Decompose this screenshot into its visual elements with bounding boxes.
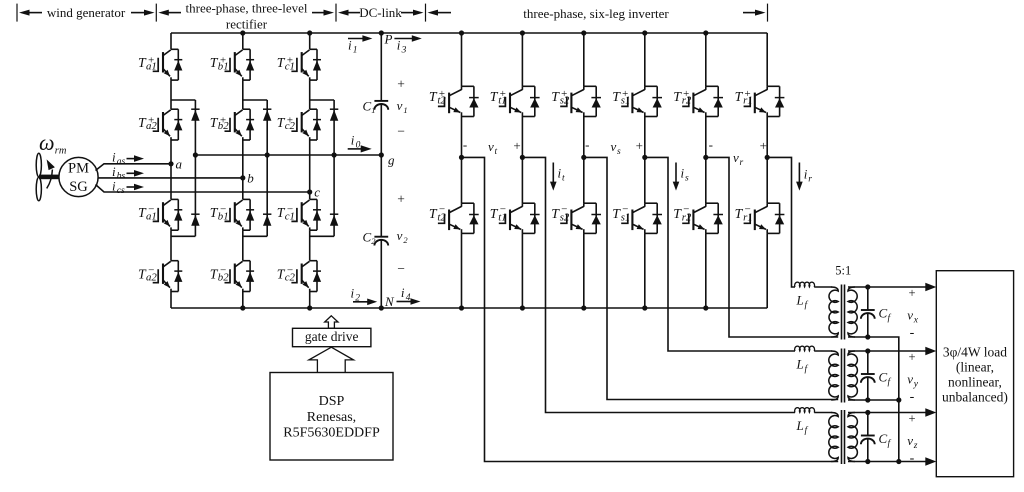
wire T_a2- emitter to bottom bus — [170, 292, 172, 309]
wire midpoint to T_t1- collector — [521, 157, 523, 203]
wire v_y- row — [848, 399, 899, 401]
junction neutral at v_z- — [896, 459, 901, 464]
wire clamp top tap leg c — [310, 99, 334, 101]
wire node c to T_c1- collector — [309, 192, 311, 199]
wire T_r2- emitter to bottom bus — [705, 233, 707, 308]
wire midpoint to T_s2- collector — [583, 157, 585, 203]
DSP to gate drive arrow — [309, 347, 354, 373]
wire clamp top tap leg a — [171, 99, 195, 101]
wire T_s2+ emitter to midpoint — [583, 117, 585, 158]
label current i_s — [675, 163, 677, 184]
wire collector stub T_r2+ — [705, 33, 707, 86]
node b — [240, 175, 245, 180]
svg-text:−: − — [397, 123, 405, 138]
IGBT T_s2+ — [584, 85, 596, 87]
wire T_s1- emitter to bottom bus — [644, 233, 646, 308]
wire neutral row to load — [848, 461, 928, 463]
svg-text:C: C — [879, 306, 888, 321]
svg-text:SG: SG — [69, 179, 88, 195]
svg-text:z: z — [913, 441, 918, 451]
transformer 1 secondary — [848, 287, 857, 337]
svg-text:r1: r1 — [743, 95, 753, 107]
dimension tick (DC-link left) — [335, 4, 337, 22]
IGBT T_r2- — [706, 202, 718, 204]
junction bottom bus — [240, 305, 245, 310]
svg-text:y: y — [913, 379, 919, 389]
wire T_c2- emitter to bottom bus — [309, 292, 311, 309]
wire collector stub T_s2+ — [583, 33, 585, 86]
IGBT T_a2- — [171, 260, 178, 262]
svg-text:i: i — [112, 178, 116, 193]
wire midpoint to T_t2- collector — [461, 157, 463, 203]
svg-text:-: - — [910, 325, 915, 340]
label current i1 — [348, 38, 364, 40]
svg-text:i: i — [804, 167, 808, 182]
wire collector stub T_a1+ — [170, 33, 172, 49]
wire top DC bus P rail — [171, 32, 767, 34]
junction C_f 3 top — [865, 410, 870, 415]
junction C_f 1 top — [865, 284, 870, 289]
wire clamp bottom tap leg a — [171, 235, 195, 237]
dimension arrow left (DC-link) — [347, 12, 361, 14]
wire clamp column leg c — [333, 100, 335, 236]
svg-text:v: v — [611, 139, 617, 154]
IGBT T_c1+ — [310, 48, 317, 50]
svg-text:s1: s1 — [621, 212, 631, 224]
dimension tick (inverter right) — [767, 4, 769, 22]
svg-text:L: L — [796, 418, 804, 433]
wire T_b1+ emitter to T_b2+ collector — [242, 80, 244, 109]
clamp diode D_c2 — [330, 213, 338, 215]
junction bottom bus — [307, 305, 312, 310]
svg-text:3: 3 — [401, 45, 407, 55]
svg-text:f: f — [888, 377, 892, 388]
junction bottom bus leg s2 — [581, 305, 586, 310]
capacitor C_f 3 — [867, 413, 869, 436]
svg-text:nonlinear,: nonlinear, — [948, 375, 1002, 390]
svg-text:v: v — [907, 433, 913, 448]
node midpoint leg s2 — [581, 155, 586, 160]
svg-text:f: f — [888, 313, 892, 324]
label current i0 — [348, 148, 363, 150]
wire phase a (generator to node a) — [96, 164, 172, 171]
wire phase b (generator to node b) — [98, 177, 243, 179]
svg-text:r2: r2 — [682, 95, 692, 107]
capacitor C_f 2 — [867, 351, 869, 374]
svg-text:i: i — [397, 37, 401, 52]
svg-text:i: i — [351, 132, 355, 147]
svg-text:2: 2 — [403, 235, 408, 245]
wire bottom DC bus N rail — [171, 307, 767, 309]
wire clamp column leg a — [194, 100, 196, 236]
wire secondary top to load (v_x+) — [848, 286, 928, 288]
svg-text:bs: bs — [117, 172, 126, 182]
svg-text:f: f — [805, 299, 809, 310]
svg-text:i: i — [348, 37, 352, 52]
svg-text:5:1: 5:1 — [835, 263, 851, 277]
svg-text:1: 1 — [371, 105, 375, 115]
gate drive box — [293, 328, 371, 346]
generator PM SG — [59, 157, 98, 196]
label current i4 — [397, 301, 413, 303]
node midpoint leg t2 — [459, 155, 464, 160]
junction top bus leg t1 — [520, 30, 525, 35]
svg-text:r: r — [740, 158, 744, 168]
svg-text:three-phase, three-level: three-phase, three-level — [186, 0, 308, 15]
svg-text:i: i — [112, 164, 116, 179]
svg-text:+: + — [760, 138, 767, 153]
wire T_t2- emitter to bottom bus — [461, 233, 463, 308]
IGBT T_r2+ — [706, 85, 718, 87]
label current i3 — [394, 38, 413, 40]
svg-text:PM: PM — [68, 161, 89, 177]
svg-text:r1: r1 — [743, 212, 753, 224]
wire T_a2+ emitter to node a — [170, 140, 172, 164]
IGBT T_a2+ — [171, 108, 178, 110]
svg-text:L: L — [796, 356, 804, 371]
turbine blade upper — [36, 153, 41, 177]
gate drive arrow to bus — [325, 316, 338, 329]
svg-text:i: i — [401, 285, 405, 300]
inductor L_f 1 — [795, 282, 815, 287]
wire midpoint to T_r2- collector — [705, 157, 707, 203]
wire secondary top to load (v_y+) — [848, 350, 928, 352]
junction top bus leg r2 — [703, 30, 708, 35]
dimension arrow right (wind generator) — [131, 12, 146, 14]
IGBT T_b2- — [243, 260, 250, 262]
wire T_c1+ emitter to T_c2+ collector — [309, 80, 311, 109]
svg-text:unbalanced): unbalanced) — [942, 390, 1008, 405]
svg-text:-: - — [910, 389, 915, 404]
inductor L_f 2 — [795, 346, 815, 351]
label current i2 — [353, 301, 369, 303]
svg-text:v: v — [488, 139, 494, 154]
IGBT T_r1- — [767, 202, 779, 204]
junction bottom bus leg r2 — [703, 305, 708, 310]
transformer 2 secondary — [848, 351, 857, 400]
svg-text:s1: s1 — [621, 95, 631, 107]
junction bottom bus leg t1 — [520, 305, 525, 310]
wire T_c1- emitter to T_c2- collector — [309, 230, 311, 261]
inductor L_f 3 — [795, 408, 815, 413]
svg-text:i: i — [681, 166, 685, 181]
dimension arrow right (DC-link) — [401, 12, 415, 14]
clamp diode D_a2 — [191, 213, 199, 215]
svg-text:+: + — [908, 412, 915, 426]
wire T_s1+ emitter to midpoint — [644, 117, 646, 158]
turbine shaft — [39, 175, 60, 180]
wire T_b2+ emitter to node b — [242, 140, 244, 178]
node midpoint leg s1 — [642, 155, 647, 160]
wire leg s1 midpoint branch to transformer 2 — [645, 157, 795, 351]
svg-text:r2: r2 — [682, 212, 692, 224]
wire T_a1- emitter to T_a2- collector — [170, 230, 172, 261]
dimension arrow left (inverter) — [436, 12, 451, 14]
svg-text:+: + — [513, 138, 520, 153]
junction top bus leg s2 — [581, 30, 586, 35]
svg-text:i: i — [558, 166, 562, 181]
transformer 1 core — [841, 285, 843, 340]
wire clamp top tap leg b — [243, 99, 267, 101]
junction clamp-neutral leg b — [265, 152, 270, 157]
junction C_f 3 bottom — [865, 459, 870, 464]
wire collector stub T_t1+ — [521, 33, 523, 86]
transformer 3 secondary — [848, 413, 857, 462]
svg-text:a: a — [176, 157, 183, 172]
svg-text:v: v — [907, 307, 913, 322]
node a — [168, 161, 173, 166]
node midpoint leg t1 — [520, 155, 525, 160]
wire leg t2 midpoint branch to transformer 3 — [462, 157, 839, 461]
svg-text:s: s — [617, 147, 621, 157]
svg-text:as: as — [117, 157, 126, 167]
wire node a to T_a1- collector — [170, 164, 172, 200]
wire leg r1 midpoint branch to transformer 1 — [767, 157, 795, 287]
junction top bus — [240, 30, 245, 35]
wire collector stub T_b1+ — [242, 33, 244, 49]
svg-text:v: v — [397, 98, 403, 113]
wire clamp bottom tap leg c — [310, 235, 334, 237]
label current i_r — [798, 163, 800, 184]
svg-text:0: 0 — [356, 140, 361, 150]
svg-text:v: v — [907, 371, 913, 386]
svg-text:b: b — [247, 171, 254, 186]
wire DC-link column — [380, 33, 382, 101]
svg-text:(linear,: (linear, — [956, 360, 994, 375]
IGBT T_r1+ — [767, 85, 779, 87]
svg-text:-: - — [585, 137, 589, 152]
wire node b to T_b1- collector — [242, 178, 244, 200]
transformer 3 core — [841, 410, 843, 464]
wire midpoint to T_r1- collector — [766, 157, 768, 203]
svg-text:P: P — [384, 32, 393, 47]
wire collector stub T_s1+ — [644, 33, 646, 86]
svg-text:L: L — [796, 292, 804, 307]
svg-text:−: − — [397, 261, 405, 276]
svg-text:2: 2 — [355, 293, 360, 303]
wire T_t1+ emitter to midpoint — [521, 117, 523, 158]
DSP box — [270, 373, 393, 461]
junction bottom bus leg t2 — [459, 305, 464, 310]
svg-text:N: N — [384, 294, 395, 309]
svg-text:gate drive: gate drive — [305, 329, 359, 344]
svg-text:i: i — [112, 149, 116, 164]
wire leg t1 midpoint branch to transformer 3 — [522, 157, 795, 412]
svg-text:+: + — [636, 138, 643, 153]
IGBT T_t1- — [522, 202, 534, 204]
svg-text:f: f — [888, 438, 892, 449]
wire T_s2- emitter to bottom bus — [583, 233, 585, 308]
junction C_f 1 bottom — [865, 334, 870, 339]
dimension tick (inverter left) — [425, 4, 427, 22]
clamp diode D_c1 — [330, 108, 338, 110]
dimension tick (rectifier left) — [155, 4, 157, 22]
clamp diode D_b1 — [263, 108, 271, 110]
transformer 1 primary — [829, 287, 838, 337]
svg-text:C: C — [363, 230, 372, 245]
dimension arrow left (wind generator) — [28, 12, 43, 14]
wire phase c (generator to node c) — [96, 185, 310, 193]
wire midpoint to T_s1- collector — [644, 157, 646, 203]
node midpoint leg r1 — [765, 155, 770, 160]
wire collector stub T_r1+ — [766, 33, 768, 86]
capacitor C_f 1 — [867, 287, 869, 310]
svg-text:C: C — [879, 431, 888, 446]
svg-text:C: C — [363, 99, 372, 114]
label current i_t — [552, 163, 554, 184]
node midpoint leg r2 — [703, 155, 708, 160]
IGBT T_t2- — [462, 202, 474, 204]
wire v_x- to neutral column — [848, 337, 899, 400]
svg-text:v: v — [733, 150, 739, 165]
junction top bus leg s1 — [642, 30, 647, 35]
wire leg r2 midpoint branch to transformer 1 — [706, 157, 838, 337]
IGBT T_c2- — [310, 260, 317, 262]
wire T_r1+ emitter to midpoint — [766, 117, 768, 158]
svg-text:2: 2 — [371, 236, 376, 246]
junction top bus leg t2 — [459, 30, 464, 35]
svg-text:+: + — [397, 191, 405, 206]
wire clamp column leg b — [266, 100, 268, 236]
svg-text:1: 1 — [403, 105, 407, 115]
capacitor C2 — [374, 236, 388, 238]
IGBT T_b2+ — [243, 108, 250, 110]
IGBT T_s2- — [584, 202, 596, 204]
svg-text:1: 1 — [353, 45, 358, 55]
clamp diode D_b2 — [263, 213, 271, 215]
svg-text:rm: rm — [55, 146, 67, 157]
wire T_r2+ emitter to midpoint — [705, 117, 707, 158]
transformer 2 primary — [829, 351, 838, 400]
svg-text:DSP: DSP — [319, 394, 345, 409]
dimension tick left end (wind generator) — [16, 4, 18, 22]
junction clamp-neutral leg a — [193, 152, 198, 157]
capacitor C1 — [374, 100, 388, 102]
svg-text:t: t — [495, 147, 498, 157]
IGBT T_s1- — [645, 202, 657, 204]
wire collector stub T_c1+ — [309, 33, 311, 49]
rotation arrow — [47, 170, 53, 189]
transformer 2 core — [841, 349, 843, 403]
junction bottom bus leg s1 — [642, 305, 647, 310]
svg-text:rectifier: rectifier — [226, 17, 268, 32]
IGBT T_c1- — [310, 198, 317, 200]
junction C_f 2 top — [865, 348, 870, 353]
svg-text:+: + — [908, 350, 915, 364]
svg-text:cs: cs — [117, 186, 125, 196]
svg-text:f: f — [805, 425, 809, 436]
wire T_a1+ emitter to T_a2+ collector — [170, 80, 172, 109]
junction clamp-neutral leg c — [332, 152, 337, 157]
IGBT T_b1+ — [243, 48, 250, 50]
wire T_b2- emitter to bottom bus — [242, 292, 244, 309]
node N — [379, 305, 384, 310]
transformer 3 primary — [829, 413, 838, 462]
svg-text:t: t — [562, 174, 565, 184]
svg-text:+: + — [397, 76, 405, 91]
wire leg s2 midpoint branch to transformer 2 — [584, 157, 838, 399]
svg-text:c: c — [314, 185, 320, 200]
wire secondary top to load (v_z+) — [848, 412, 928, 414]
svg-text:-: - — [709, 137, 713, 152]
wire T_t1- emitter to bottom bus — [521, 233, 523, 308]
turbine blade lower — [36, 177, 41, 201]
svg-text:f: f — [805, 363, 809, 374]
svg-text:Renesas,: Renesas, — [307, 410, 356, 425]
node P — [379, 30, 384, 35]
wire T_b1- emitter to T_b2- collector — [242, 230, 244, 261]
load box 3ph/4W — [936, 271, 1013, 477]
svg-text:+: + — [908, 286, 915, 300]
dimension arrow left (rectifier) — [167, 12, 181, 14]
svg-text:C: C — [879, 370, 888, 385]
IGBT T_t2+ — [462, 85, 474, 87]
svg-text:wind generator: wind generator — [47, 5, 126, 20]
svg-text:DC-link: DC-link — [359, 5, 402, 20]
dimension arrow right (rectifier) — [312, 12, 326, 14]
node g — [379, 152, 384, 157]
svg-text:s: s — [685, 174, 689, 184]
dimension arrow right (inverter) — [743, 12, 757, 14]
svg-text:v: v — [397, 228, 403, 243]
junction top bus — [307, 30, 312, 35]
IGBT T_a1- — [171, 198, 178, 200]
IGBT T_s1+ — [645, 85, 657, 87]
wire T_t2+ emitter to midpoint — [461, 117, 463, 158]
node c — [307, 189, 312, 194]
svg-text:r: r — [808, 175, 812, 185]
wire neutral column v_y- to v_z- — [898, 400, 900, 462]
wire T_r1- emitter to bottom bus — [766, 233, 768, 308]
IGBT T_a1+ — [171, 48, 178, 50]
svg-text:-: - — [910, 451, 915, 466]
svg-text:R5F5630EDDFP: R5F5630EDDFP — [283, 425, 380, 440]
wire neutral g bus — [195, 154, 381, 156]
wire collector stub T_t2+ — [461, 33, 463, 86]
svg-text:-: - — [463, 137, 467, 152]
junction neutral at v_y- — [896, 397, 901, 402]
svg-text:4: 4 — [406, 293, 411, 303]
svg-text:three-phase, six-leg inverter: three-phase, six-leg inverter — [523, 6, 669, 21]
junction C_f 2 bottom — [865, 397, 870, 402]
svg-text:ω: ω — [39, 130, 55, 155]
svg-text:x: x — [913, 315, 919, 325]
IGBT T_c2+ — [310, 108, 317, 110]
clamp diode D_a1 — [191, 108, 199, 110]
svg-text:g: g — [388, 152, 395, 167]
wire clamp bottom tap leg b — [243, 235, 267, 237]
IGBT T_b1- — [243, 198, 250, 200]
svg-text:i: i — [351, 285, 355, 300]
svg-text:s2: s2 — [560, 95, 570, 107]
IGBT T_t1+ — [522, 85, 534, 87]
wire T_c2+ emitter to node c — [309, 140, 311, 192]
svg-text:s2: s2 — [560, 212, 570, 224]
svg-text:3φ/4W load: 3φ/4W load — [943, 345, 1007, 360]
